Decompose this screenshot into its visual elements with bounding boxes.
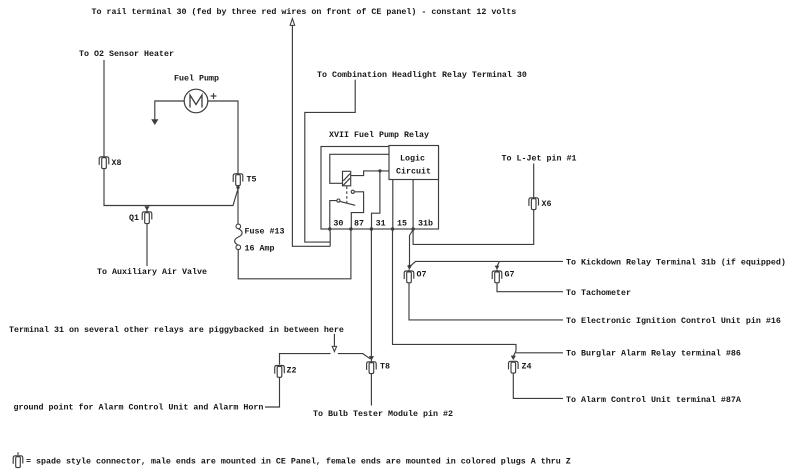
svg-text:87: 87 xyxy=(354,218,364,228)
wire: fuel pump negative lead to ground arrow xyxy=(155,101,185,121)
wire: fuel pump positive lead down through T5 connector xyxy=(208,101,238,187)
svg-text:= spade style connector, male: = spade style connector, male ends are m… xyxy=(26,456,571,466)
node: open down arrowhead touching piggyback bus xyxy=(332,346,336,351)
svg-text:T8: T8 xyxy=(380,361,390,371)
node: arrowhead into O7 xyxy=(407,266,412,270)
node: junction dot on coil-logic wire xyxy=(378,169,381,172)
svg-text:To Kickdown Relay Terminal 31b: To Kickdown Relay Terminal 31b (if equip… xyxy=(566,257,786,267)
node: open up-arrow to rail terminal 30 text xyxy=(290,19,295,26)
connector Z4 xyxy=(509,361,519,373)
ground: filled down arrow under fuel pump xyxy=(151,119,158,125)
svg-text:31: 31 xyxy=(376,218,386,228)
svg-text:To Combination Headlight Relay: To Combination Headlight Relay Terminal … xyxy=(317,70,527,80)
svg-text:To Auxiliary Air Valve: To Auxiliary Air Valve xyxy=(97,267,207,277)
connector G7 xyxy=(492,271,502,283)
wire: T5 junction down to fuse #13 xyxy=(237,187,239,224)
svg-text:To Tachometer: To Tachometer xyxy=(566,288,631,298)
node: switch common contact circle xyxy=(337,199,340,202)
connector Z2 xyxy=(275,366,285,378)
svg-text:Z2: Z2 xyxy=(287,365,297,375)
svg-text:T5: T5 xyxy=(247,174,257,184)
node: T5 junction dot xyxy=(236,186,239,189)
svg-text:To O2 Sensor Heater: To O2 Sensor Heater xyxy=(79,49,174,59)
motor: fuel pump circle M xyxy=(184,89,208,113)
wire: O2 sensor heater line down through X8 to horizontal bus xyxy=(104,60,238,206)
wire: branch diagonal into G7 xyxy=(497,261,499,265)
svg-text:To Alarm Control Unit terminal: To Alarm Control Unit terminal #87A xyxy=(566,395,741,405)
node: arrowhead into T8 xyxy=(369,356,374,361)
wire: logic circuit to relay coil left end xyxy=(330,154,389,183)
svg-text:Circuit: Circuit xyxy=(396,166,431,176)
svg-text:15: 15 xyxy=(397,218,407,228)
connector X6 xyxy=(529,198,539,210)
motor: plus sign at positive terminal xyxy=(211,93,217,99)
connector Q1 xyxy=(142,212,152,224)
wire: relay terminal 30 up to switch common contact xyxy=(330,201,337,229)
svg-text:Q1: Q1 xyxy=(129,213,139,223)
wire: logic circuit to relay terminal 31b xyxy=(412,180,414,230)
svg-text:G7: G7 xyxy=(505,269,515,279)
wire: relay terminal 31 down to T8 and bulb tester module xyxy=(370,229,372,406)
svg-text:To Electronic Ignition Control: To Electronic Ignition Control Unit pin … xyxy=(566,316,781,326)
svg-text:Fuse #13: Fuse #13 xyxy=(245,226,285,236)
node: terminal 15 dot xyxy=(391,227,394,230)
wire: L-Jet pin #1 line down through X6 to terminal 31b xyxy=(413,164,534,245)
fuse #13 squiggle xyxy=(235,229,243,246)
node: arrowhead into Q1 xyxy=(144,206,149,210)
wire: Z4 down to alarm control unit terminal 87A line xyxy=(513,372,563,399)
relay coil hatch xyxy=(343,174,350,186)
relay box XVII Fuel Pump Relay outline xyxy=(321,147,439,230)
wire: burglar alarm relay branch line xyxy=(516,352,563,354)
connector X8 xyxy=(99,157,109,169)
wire: relay terminal 30 drop below box xyxy=(329,229,331,246)
node: terminal 31b dot xyxy=(411,227,414,230)
legend connector stub xyxy=(17,452,19,455)
switch blade (open) xyxy=(340,201,355,205)
wire: combination headlight relay line down to terminal 30 drop xyxy=(305,80,355,242)
wire: logic circuit to relay terminal 15 xyxy=(392,180,394,230)
wire: Q1 drop to auxiliary air valve xyxy=(146,207,148,267)
motor: M glyph xyxy=(190,95,202,108)
wire: O7 down to electronic ignition control unit line xyxy=(409,270,563,320)
svg-text:O7: O7 xyxy=(417,269,427,279)
connector O7 xyxy=(404,271,414,283)
node: terminal 31 dot xyxy=(370,227,373,230)
svg-text:XVII Fuel Pump Relay: XVII Fuel Pump Relay xyxy=(329,130,429,140)
svg-text:Fuel Pump: Fuel Pump xyxy=(174,73,219,83)
wire: junction down to relay terminal 31 xyxy=(372,171,380,229)
fuse #13 bottom terminal circle xyxy=(236,245,241,250)
node: switch normally-open contact circle xyxy=(351,190,354,193)
wire: main constant 12V vertical from rail terminal 30 arrow down to node at relay terminal 30 drop xyxy=(292,25,330,246)
svg-text:X8: X8 xyxy=(112,158,122,168)
svg-text:ground point for Alarm Control: ground point for Alarm Control Unit and … xyxy=(14,402,264,412)
svg-text:31b: 31b xyxy=(418,218,433,228)
svg-text:30: 30 xyxy=(333,218,343,228)
svg-text:Z4: Z4 xyxy=(522,361,532,371)
logic circuit box U1 xyxy=(389,146,439,180)
wire: piggyback bus from Z2 to T8 xyxy=(280,354,331,365)
svg-text:X6: X6 xyxy=(542,199,552,209)
node: O7 junction dot xyxy=(408,265,411,268)
node: arrowhead into G7 xyxy=(495,266,500,270)
wire: switch NO contact to relay terminal 87 xyxy=(351,192,363,229)
wire: Z2 down to ground point text xyxy=(265,376,280,408)
wire: dashed mechanical link from coil to switch blade xyxy=(346,187,348,204)
wire: annotation arrow stem for piggyback note xyxy=(333,334,335,347)
svg-text:16 Amp: 16 Amp xyxy=(245,243,275,253)
relay coil K1 xyxy=(343,171,351,186)
wire: relay terminal 15 down and across to Z4 xyxy=(393,229,517,356)
connector T5 xyxy=(233,174,243,186)
wire: G7 down to tachometer line xyxy=(497,270,563,292)
wire: terminal 31b branch down to O7 junction xyxy=(410,231,413,267)
wire: fuse bottom to relay terminal 87 xyxy=(238,229,351,279)
svg-text:To rail terminal 30 (fed by th: To rail terminal 30 (fed by three red wi… xyxy=(92,7,517,17)
svg-text:To L-Jet pin #1: To L-Jet pin #1 xyxy=(502,153,577,163)
connector T8 xyxy=(367,362,377,374)
node: terminal 30 dot xyxy=(328,227,331,230)
svg-text:Logic: Logic xyxy=(400,153,425,163)
fuse #13 top terminal circle xyxy=(236,224,241,229)
svg-text:To Burglar Alarm Relay termina: To Burglar Alarm Relay terminal #86 xyxy=(566,349,741,359)
wire: relay coil right end up to logic circuit with node xyxy=(351,171,389,176)
wire: kickdown relay line with branch diagonals to O7 and G7 xyxy=(410,261,563,266)
svg-text:Terminal 31 on several other r: Terminal 31 on several other relays are … xyxy=(9,325,344,335)
legend connector symbol xyxy=(13,456,23,468)
svg-text:To Bulb Tester Module pin #2: To Bulb Tester Module pin #2 xyxy=(313,409,453,419)
node: arrowhead into Z4 xyxy=(511,356,516,361)
node: terminal 87 dot xyxy=(349,227,352,230)
